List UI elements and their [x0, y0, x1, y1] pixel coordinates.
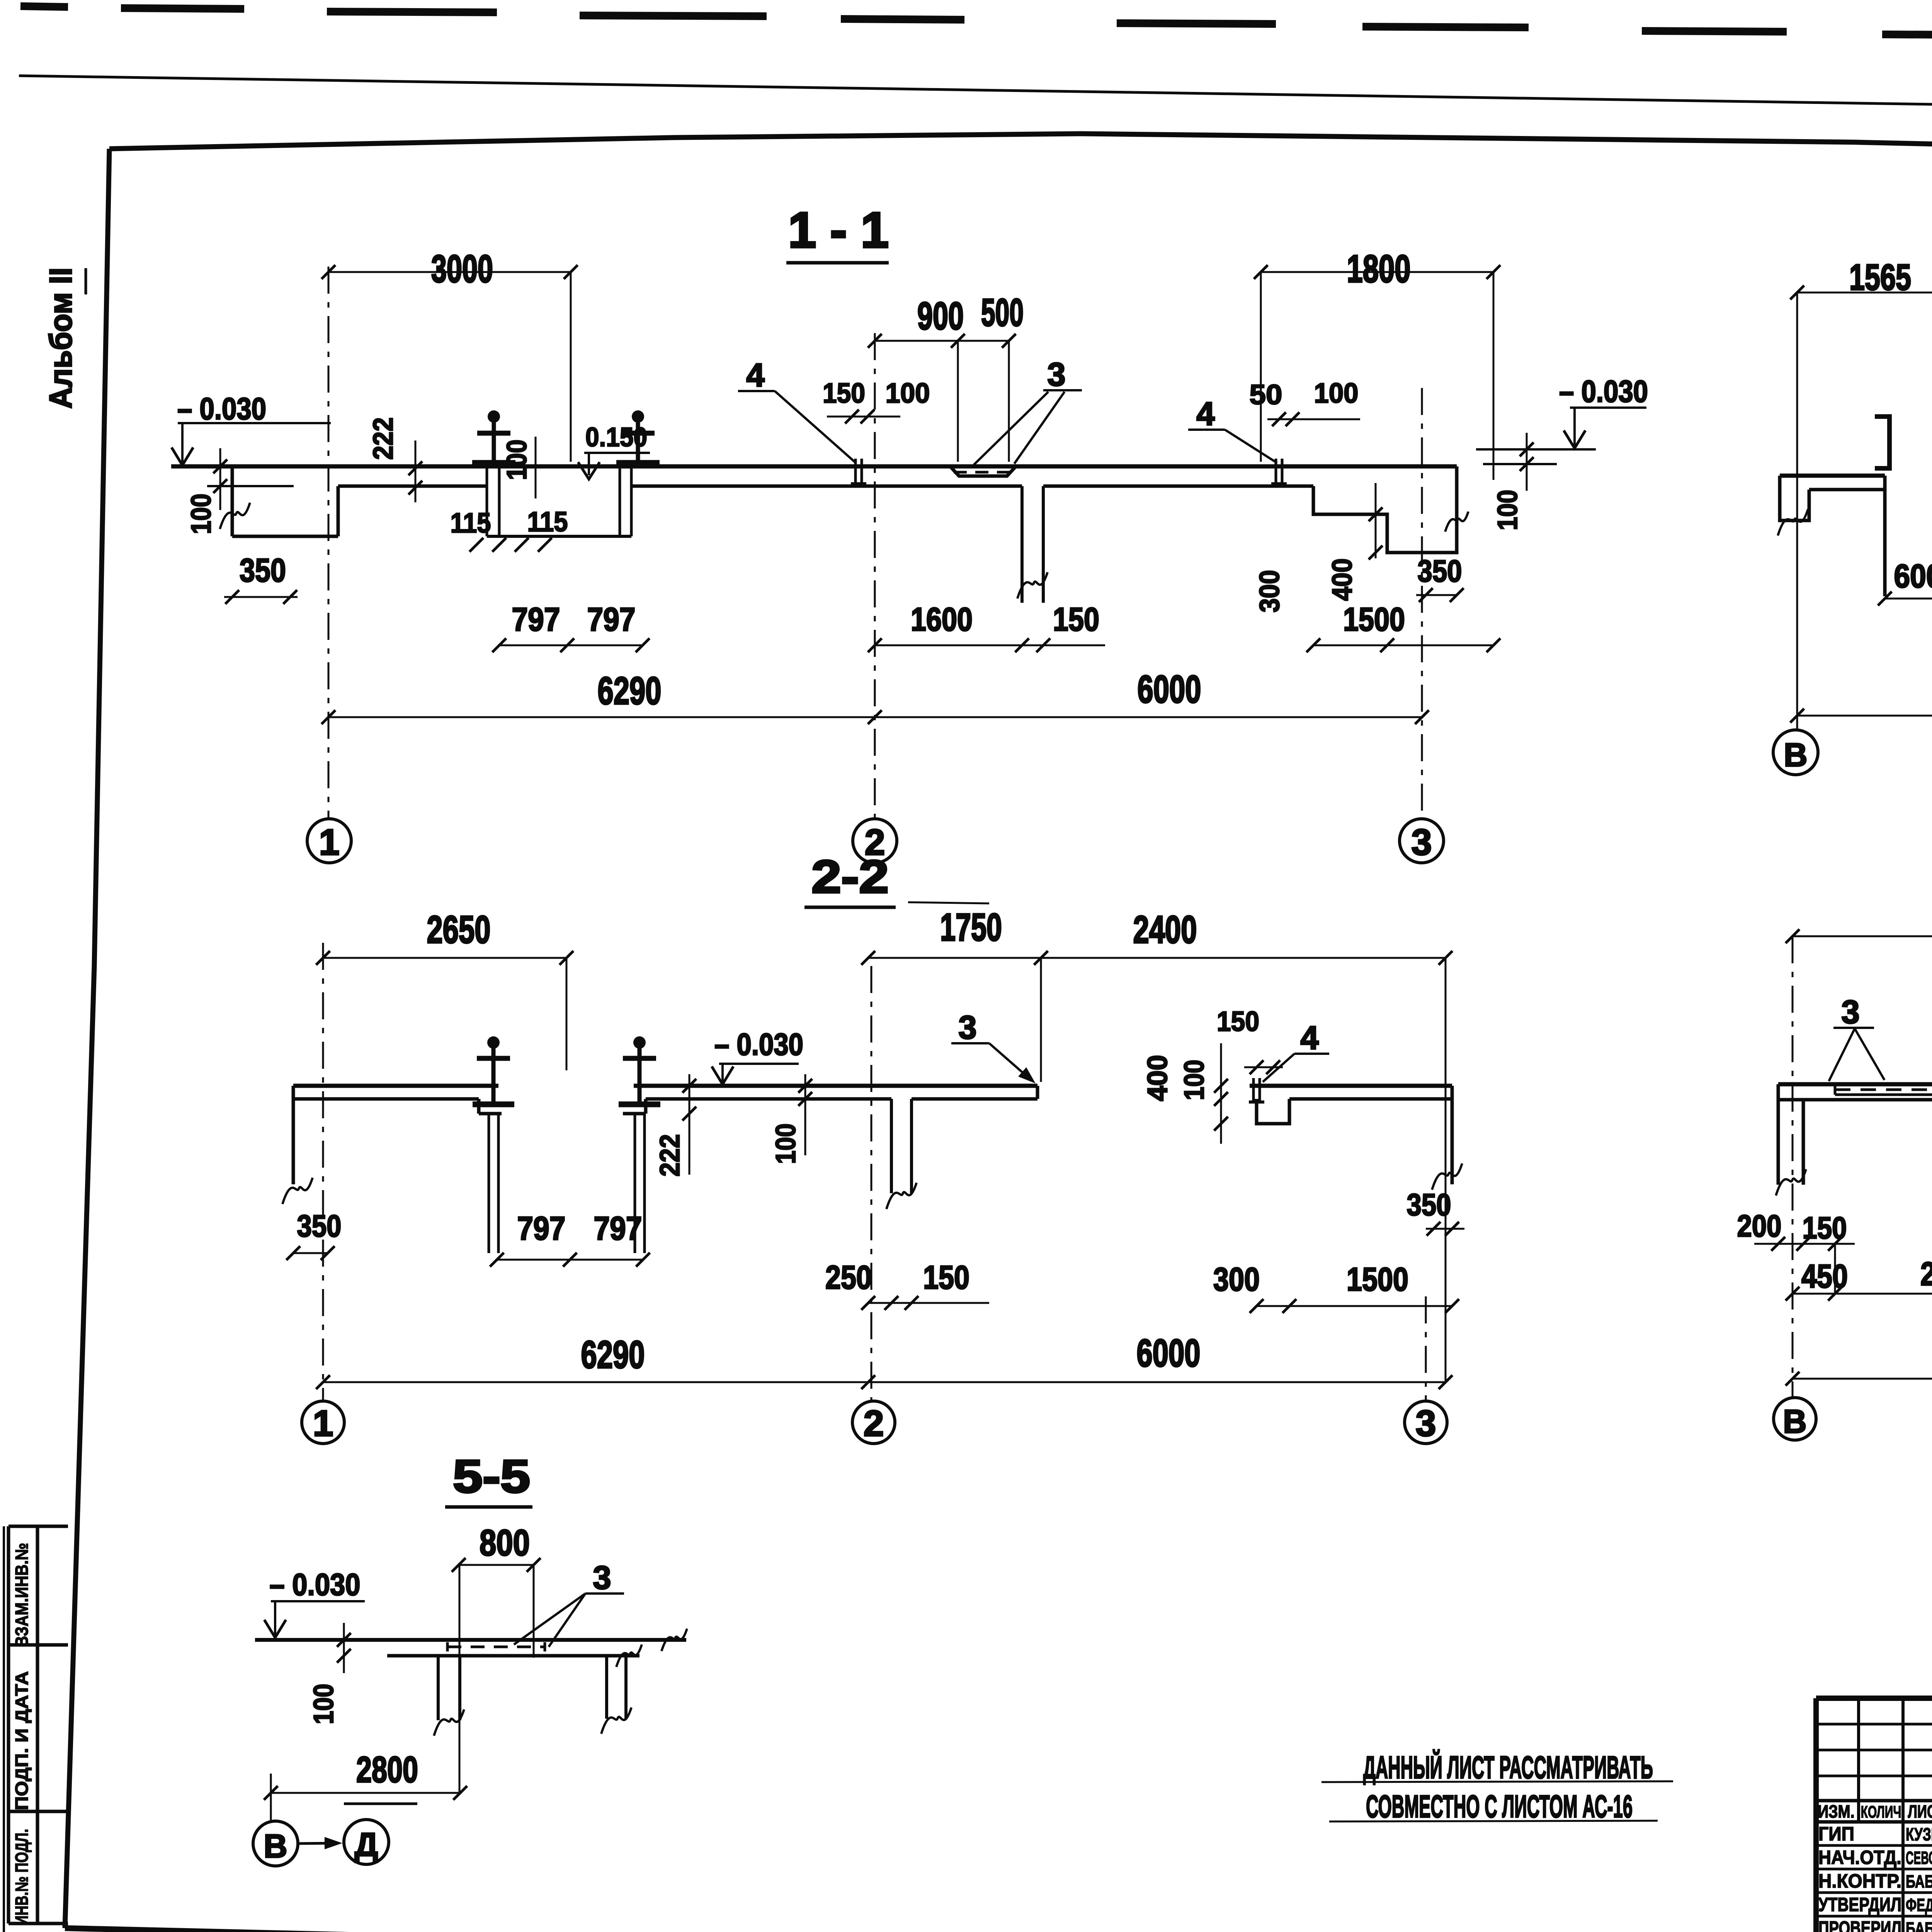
- svg-text:600: 600: [1894, 558, 1932, 595]
- svg-text:797: 797: [587, 601, 636, 638]
- svg-text:800: 800: [480, 1522, 530, 1563]
- svg-text:500: 500: [981, 291, 1024, 334]
- svg-text:150: 150: [1217, 1006, 1259, 1037]
- svg-text:115: 115: [527, 507, 568, 537]
- svg-text:1800: 1800: [1347, 247, 1411, 291]
- svg-text:400: 400: [1327, 558, 1358, 601]
- svg-text:4: 4: [1300, 1020, 1318, 1056]
- svg-text:СОВМЕСТНО С ЛИСТОМ АС-16: СОВМЕСТНО С ЛИСТОМ АС-16: [1366, 1789, 1633, 1824]
- svg-text:– 0.030: – 0.030: [714, 1027, 803, 1061]
- svg-text:150: 150: [823, 378, 865, 409]
- svg-text:50: 50: [1250, 379, 1282, 410]
- svg-text:ПОДП. И ДАТА: ПОДП. И ДАТА: [12, 1671, 32, 1810]
- svg-text:– 0.030: – 0.030: [270, 1567, 361, 1602]
- svg-text:1750: 1750: [940, 906, 1002, 949]
- svg-text:2650: 2650: [427, 908, 491, 951]
- svg-text:– 0.030: – 0.030: [177, 391, 266, 426]
- svg-text:150: 150: [1053, 601, 1099, 638]
- svg-text:4: 4: [1196, 396, 1214, 432]
- svg-text:400: 400: [1142, 1055, 1173, 1101]
- svg-text:3: 3: [958, 1009, 976, 1046]
- svg-text:2800: 2800: [356, 1749, 418, 1790]
- svg-text:ВЗАМ.ИНВ.№: ВЗАМ.ИНВ.№: [12, 1543, 32, 1647]
- svg-text:КОЛИЧ: КОЛИЧ: [1861, 1803, 1901, 1821]
- svg-text:ГИП: ГИП: [1818, 1823, 1854, 1845]
- svg-text:2-2: 2-2: [811, 851, 889, 903]
- svg-text:100: 100: [308, 1684, 339, 1725]
- svg-text:3: 3: [1841, 994, 1859, 1031]
- svg-text:797: 797: [517, 1210, 566, 1247]
- svg-text:1: 1: [319, 822, 340, 863]
- svg-text:3000: 3000: [431, 247, 493, 291]
- svg-text:В: В: [264, 1828, 287, 1865]
- svg-text:115: 115: [451, 508, 491, 539]
- svg-text:100: 100: [886, 378, 930, 409]
- svg-text:Д: Д: [355, 1827, 378, 1863]
- svg-text:350: 350: [240, 552, 286, 589]
- svg-text:1500: 1500: [1347, 1261, 1408, 1298]
- svg-text:БАБУРИН: БАБУРИН: [1906, 1871, 1932, 1891]
- svg-text:– 0.030: – 0.030: [1559, 374, 1648, 408]
- svg-text:2400: 2400: [1133, 908, 1197, 951]
- svg-text:900: 900: [917, 294, 964, 338]
- svg-text:1600: 1600: [911, 601, 973, 638]
- svg-text:3: 3: [1047, 356, 1065, 393]
- svg-text:100: 100: [1179, 1060, 1210, 1100]
- svg-text:Альбом II: Альбом II: [43, 268, 78, 409]
- svg-text:КУЗНЕЦОВ: КУЗНЕЦОВ: [1906, 1824, 1932, 1844]
- svg-text:250: 250: [825, 1259, 872, 1296]
- svg-text:350: 350: [1407, 1187, 1451, 1222]
- svg-text:6290: 6290: [581, 1333, 645, 1376]
- svg-text:100: 100: [770, 1124, 801, 1164]
- svg-text:3: 3: [593, 1560, 611, 1596]
- svg-text:В: В: [1783, 1403, 1806, 1440]
- svg-text:300: 300: [1213, 1261, 1260, 1298]
- svg-text:222: 222: [655, 1134, 685, 1177]
- svg-text:200: 200: [1737, 1209, 1782, 1243]
- svg-text:ДАННЫЙ ЛИСТ РАССМАТРИВАТЬ: ДАННЫЙ ЛИСТ РАССМАТРИВАТЬ: [1363, 1750, 1653, 1785]
- svg-text:3: 3: [1416, 1403, 1436, 1444]
- svg-text:100: 100: [1314, 378, 1359, 409]
- svg-text:100: 100: [186, 494, 217, 534]
- svg-text:4: 4: [746, 357, 764, 394]
- svg-text:100: 100: [1492, 490, 1523, 531]
- svg-text:6290: 6290: [598, 669, 662, 713]
- svg-text:ФЕДОТОВ: ФЕДОТОВ: [1906, 1895, 1932, 1915]
- svg-text:ЛИСТ: ЛИСТ: [1908, 1801, 1932, 1821]
- svg-text:5-5: 5-5: [453, 1451, 530, 1502]
- svg-text:1 - 1: 1 - 1: [788, 202, 889, 258]
- svg-text:Н.КОНТР.: Н.КОНТР.: [1818, 1870, 1901, 1892]
- svg-text:1: 1: [313, 1403, 333, 1444]
- svg-text:УТВЕРДИЛ: УТВЕРДИЛ: [1818, 1894, 1901, 1915]
- svg-text:300: 300: [1254, 570, 1285, 612]
- svg-text:0.150: 0.150: [585, 422, 647, 452]
- svg-text:100: 100: [502, 440, 532, 480]
- svg-text:ПРОВЕРИЛ: ПРОВЕРИЛ: [1818, 1917, 1901, 1932]
- svg-text:ИНВ.№ ПОДЛ.: ИНВ.№ ПОДЛ.: [12, 1829, 32, 1925]
- svg-text:150: 150: [923, 1259, 969, 1296]
- svg-text:2: 2: [864, 1403, 884, 1444]
- svg-text:2200: 2200: [1920, 1256, 1932, 1293]
- svg-text:797: 797: [594, 1210, 642, 1247]
- svg-text:БАБУРИН: БАБУРИН: [1906, 1918, 1932, 1932]
- svg-text:6000: 6000: [1137, 1332, 1201, 1375]
- svg-text:222: 222: [368, 417, 399, 460]
- svg-text:350: 350: [297, 1209, 342, 1243]
- svg-text:СЕВОСТЬЯНОВ: СЕВОСТЬЯНОВ: [1906, 1848, 1932, 1868]
- svg-text:1500: 1500: [1343, 601, 1405, 638]
- svg-text:350: 350: [1418, 554, 1462, 588]
- svg-text:6000: 6000: [1138, 668, 1201, 711]
- svg-text:1565: 1565: [1849, 257, 1911, 298]
- svg-text:НАЧ.ОТД.: НАЧ.ОТД.: [1818, 1847, 1901, 1868]
- svg-text:797: 797: [512, 601, 560, 638]
- svg-text:В: В: [1784, 737, 1807, 774]
- svg-text:3: 3: [1412, 822, 1432, 863]
- svg-text:ИЗМ.: ИЗМ.: [1818, 1801, 1855, 1821]
